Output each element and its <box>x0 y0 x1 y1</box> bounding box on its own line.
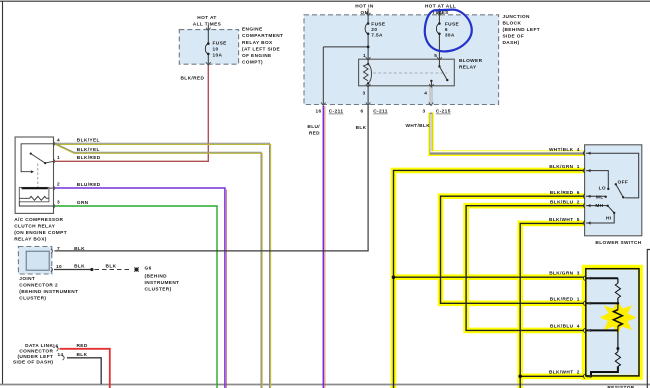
svg-text:4: 4 <box>424 91 427 97</box>
svg-text:CONNECTOR: CONNECTOR <box>19 348 53 354</box>
svg-text:16: 16 <box>52 344 58 350</box>
svg-text:DASH): DASH) <box>503 40 520 46</box>
svg-text:(BEHIND INSTRUMENT: (BEHIND INSTRUMENT <box>19 289 78 295</box>
svg-text:BLK/YEL: BLK/YEL <box>77 138 100 144</box>
svg-text:10: 10 <box>56 264 62 270</box>
svg-text:SIDE OF DASH): SIDE OF DASH) <box>13 359 53 365</box>
svg-text:BLK/RED: BLK/RED <box>550 190 574 196</box>
svg-text:C-215: C-215 <box>436 109 451 115</box>
svg-text:BLK/RED: BLK/RED <box>77 155 101 161</box>
svg-text:BLK/WHT: BLK/WHT <box>549 369 574 375</box>
svg-text:4: 4 <box>577 147 580 153</box>
svg-text:JUNCTION: JUNCTION <box>503 14 531 20</box>
svg-text:2: 2 <box>577 369 580 375</box>
svg-text:JOINT: JOINT <box>19 276 35 282</box>
svg-text:(BEHIND: (BEHIND <box>145 273 168 279</box>
svg-text:HOT AT: HOT AT <box>197 15 216 21</box>
svg-text:BLK/RED: BLK/RED <box>550 297 574 303</box>
svg-text:4: 4 <box>57 137 60 143</box>
svg-text:SIDE OF: SIDE OF <box>503 34 525 40</box>
svg-text:1: 1 <box>577 297 580 303</box>
svg-text:10A: 10A <box>213 53 223 59</box>
svg-text:(BEHIND LEFT: (BEHIND LEFT <box>503 27 541 33</box>
svg-text:BLK/WHT: BLK/WHT <box>549 217 574 223</box>
svg-text:3: 3 <box>577 271 580 277</box>
svg-text:BLOCK: BLOCK <box>503 21 522 27</box>
svg-text:FUSE: FUSE <box>445 21 459 27</box>
svg-text:30A: 30A <box>445 32 455 38</box>
svg-text:2: 2 <box>577 200 580 206</box>
svg-text:BLK/RED: BLK/RED <box>181 76 205 82</box>
svg-text:BLU/: BLU/ <box>307 124 320 130</box>
svg-text:RELAY BOX: RELAY BOX <box>242 40 273 46</box>
svg-text:BLK: BLK <box>74 264 85 270</box>
svg-text:BLOWER SWITCH: BLOWER SWITCH <box>595 240 641 246</box>
svg-text:5: 5 <box>577 217 580 223</box>
svg-text:1: 1 <box>577 164 580 170</box>
svg-text:FUSE: FUSE <box>213 41 227 47</box>
svg-text:MH: MH <box>595 203 603 209</box>
svg-text:20: 20 <box>371 27 377 33</box>
svg-text:7: 7 <box>57 246 60 252</box>
svg-text:BLK/YEL: BLK/YEL <box>77 147 100 153</box>
svg-text:WHT/BLK: WHT/BLK <box>549 147 574 153</box>
svg-text:RELAY BOX): RELAY BOX) <box>14 236 47 242</box>
svg-text:ENGINE: ENGINE <box>242 27 263 33</box>
svg-text:ML: ML <box>596 194 604 200</box>
svg-text:COMPT): COMPT) <box>242 60 263 66</box>
svg-text:G6: G6 <box>145 265 152 271</box>
svg-text:BLK: BLK <box>106 263 117 269</box>
svg-text:OFF: OFF <box>618 179 629 185</box>
svg-text:BLK: BLK <box>356 125 367 131</box>
svg-text:WHT/BLK: WHT/BLK <box>406 123 431 129</box>
svg-text:3: 3 <box>362 91 365 97</box>
svg-text:10: 10 <box>213 47 219 53</box>
svg-text:3: 3 <box>57 200 60 206</box>
svg-text:RED: RED <box>309 131 320 137</box>
svg-text:14: 14 <box>57 352 63 358</box>
svg-text:HI: HI <box>606 215 612 221</box>
svg-text:A/C COMPRESSOR: A/C COMPRESSOR <box>14 217 63 223</box>
svg-text:7.5A: 7.5A <box>371 32 383 38</box>
svg-text:6: 6 <box>445 27 448 33</box>
svg-text:BLK/BLU: BLK/BLU <box>550 324 574 330</box>
svg-text:BLOWER: BLOWER <box>459 58 483 64</box>
svg-text:C-211: C-211 <box>329 109 344 115</box>
svg-text:BLK/BLU: BLK/BLU <box>550 200 574 206</box>
svg-text:CONNECTOR 2: CONNECTOR 2 <box>19 282 58 288</box>
svg-text:(ON ENGINE COMPT: (ON ENGINE COMPT <box>14 230 67 236</box>
svg-text:BLK/GRN: BLK/GRN <box>549 271 573 277</box>
svg-text:CLUSTER): CLUSTER) <box>19 295 46 301</box>
svg-text:16: 16 <box>315 109 321 115</box>
svg-text:1: 1 <box>363 53 366 59</box>
svg-text:OF ENGINE: OF ENGINE <box>242 53 272 59</box>
svg-text:4: 4 <box>577 324 580 330</box>
svg-text:CLUSTER): CLUSTER) <box>145 286 172 292</box>
svg-text:BLK/GRN: BLK/GRN <box>549 164 573 170</box>
svg-text:RED: RED <box>77 343 88 349</box>
svg-text:ON: ON <box>361 10 369 16</box>
svg-text:BLK: BLK <box>74 246 85 252</box>
svg-text:FUSE: FUSE <box>371 21 385 27</box>
svg-text:INSTRUMENT: INSTRUMENT <box>145 280 180 286</box>
svg-text:1: 1 <box>57 155 60 161</box>
svg-text:5: 5 <box>434 53 437 59</box>
svg-text:LO: LO <box>599 186 606 192</box>
svg-text:BLU/RED: BLU/RED <box>77 182 101 188</box>
svg-text:BLK: BLK <box>77 352 88 358</box>
svg-text:6: 6 <box>577 190 580 196</box>
svg-text:(AT LEFT SIDE: (AT LEFT SIDE <box>242 46 280 52</box>
svg-text:ALL TIMES: ALL TIMES <box>193 22 221 28</box>
svg-text:HOT IN: HOT IN <box>355 4 374 10</box>
svg-text:CLUTCH RELAY: CLUTCH RELAY <box>14 223 56 229</box>
svg-text:3: 3 <box>422 109 425 115</box>
svg-text:GRN: GRN <box>77 200 89 206</box>
svg-text:RELAY: RELAY <box>459 65 477 71</box>
svg-text:6: 6 <box>360 109 363 115</box>
svg-text:2: 2 <box>57 182 60 188</box>
svg-text:(UNDER LEFT: (UNDER LEFT <box>17 354 53 360</box>
svg-text:DATA LINK: DATA LINK <box>25 343 53 349</box>
svg-text:C-211: C-211 <box>373 109 388 115</box>
svg-text:COMPARTMENT: COMPARTMENT <box>242 33 283 39</box>
